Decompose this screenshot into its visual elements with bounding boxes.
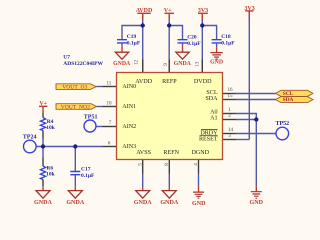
- svg-text:C20: C20: [187, 34, 197, 40]
- svg-text:A1: A1: [210, 116, 217, 122]
- svg-text:AIN3: AIN3: [122, 144, 136, 150]
- svg-text:13: 13: [195, 61, 201, 67]
- svg-text:AVDD: AVDD: [136, 8, 153, 14]
- svg-text:C18: C18: [221, 34, 231, 40]
- svg-text:TP24: TP24: [23, 135, 37, 141]
- svg-text:10k: 10k: [46, 125, 56, 131]
- svg-text:12: 12: [134, 60, 140, 66]
- svg-text:0.1µF: 0.1µF: [127, 40, 141, 46]
- svg-text:RESET: RESET: [199, 136, 218, 142]
- svg-text:V+: V+: [164, 8, 172, 14]
- svg-text:10: 10: [106, 100, 112, 106]
- svg-text:AVDD: AVDD: [135, 79, 152, 85]
- svg-text:AVSS: AVSS: [136, 150, 151, 156]
- svg-text:SDA: SDA: [205, 96, 218, 102]
- svg-text:GNDA: GNDA: [160, 200, 179, 206]
- svg-text:ADS122C04IPW: ADS122C04IPW: [63, 61, 103, 67]
- svg-text:GND: GND: [210, 59, 223, 65]
- svg-text:16: 16: [227, 87, 233, 93]
- svg-text:C17: C17: [81, 166, 91, 172]
- svg-text:AIN2: AIN2: [122, 124, 136, 130]
- svg-text:V+: V+: [39, 101, 47, 107]
- svg-text:0.1µF: 0.1µF: [81, 173, 95, 179]
- svg-text:0.1µF: 0.1µF: [221, 41, 235, 47]
- svg-text:GNDA: GNDA: [134, 200, 153, 206]
- svg-text:6: 6: [108, 140, 111, 146]
- svg-text:VOUT_O3: VOUT_O3: [62, 85, 87, 91]
- svg-text:DVDD: DVDD: [194, 79, 212, 85]
- svg-text:3V3: 3V3: [244, 6, 254, 12]
- svg-text:GNDA: GNDA: [66, 200, 85, 206]
- svg-text:GNDA: GNDA: [113, 61, 131, 67]
- svg-text:VOUT_NO2: VOUT_NO2: [61, 105, 90, 111]
- svg-text:AIN1: AIN1: [122, 104, 136, 110]
- svg-text:0.1µF: 0.1µF: [187, 41, 201, 47]
- svg-text:U7: U7: [63, 55, 70, 61]
- svg-text:2: 2: [228, 113, 231, 119]
- svg-text:3: 3: [228, 133, 231, 139]
- svg-text:REFN: REFN: [163, 150, 179, 156]
- svg-text:REFP: REFP: [162, 79, 177, 85]
- svg-text:SDA: SDA: [283, 97, 294, 103]
- svg-text:10k: 10k: [46, 171, 56, 177]
- svg-text:GND: GND: [192, 201, 206, 207]
- svg-text:C19: C19: [127, 34, 137, 40]
- svg-text:AIN0: AIN0: [122, 84, 136, 90]
- svg-text:15: 15: [227, 93, 233, 99]
- svg-text:7: 7: [109, 120, 112, 126]
- svg-text:3V3: 3V3: [198, 8, 208, 14]
- svg-text:GNDA: GNDA: [34, 200, 53, 206]
- svg-text:DGND: DGND: [191, 150, 209, 156]
- svg-text:9: 9: [163, 63, 169, 66]
- svg-text:TP52: TP52: [276, 121, 290, 127]
- svg-text:GNDA: GNDA: [174, 61, 192, 67]
- svg-text:5: 5: [138, 163, 144, 166]
- svg-text:GND: GND: [250, 200, 264, 206]
- svg-text:TP51: TP51: [84, 114, 98, 120]
- svg-text:11: 11: [106, 80, 111, 86]
